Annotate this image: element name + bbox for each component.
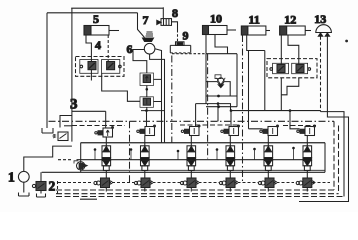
pilot valve PV3: [180, 178, 198, 188]
svg-text:12: 12: [284, 13, 296, 27]
dashed pilot vertical b2: [171, 56, 173, 143]
valve block 11: [249, 51, 265, 129]
accumulator 13: [315, 25, 332, 37]
svg-text:6: 6: [127, 42, 133, 56]
wire second top line: [47, 12, 138, 14]
tank symbol left: [42, 128, 53, 133]
svg-text:1: 1: [8, 170, 15, 185]
wire bottom return long: [56, 196, 344, 198]
wire top line into pump: [138, 13, 145, 38]
relief valve RV1: [140, 73, 154, 86]
cylinder 12: [280, 26, 311, 35]
dashed pilot vertical b: [207, 54, 209, 159]
wire group4 drain staircase: [102, 73, 140, 101]
pump 1: [18, 171, 29, 182]
wire accumulator leg A: [320, 36, 322, 111]
solenoid valve 12a: [270, 63, 289, 73]
check valve 10: [206, 75, 230, 96]
manifold bottom edge: [81, 169, 325, 171]
node gallery junctions: [94, 148, 97, 151]
cartridge CV2: [141, 146, 150, 175]
wire inlet top: [72, 110, 106, 112]
svg-text:5: 5: [93, 12, 99, 26]
cylinder 5: [84, 26, 119, 36]
inlet valve Va: [53, 132, 68, 141]
tank symbol pump1: [19, 193, 30, 197]
compensator Vc4: [221, 125, 240, 136]
pilot valve PV5: [258, 178, 276, 188]
wire PV6 stub: [306, 175, 308, 192]
wire top outer line: [71, 7, 163, 9]
node right fleck: [345, 40, 348, 43]
wire RV1 to RV2: [147, 79, 162, 101]
manifold gallery line: [77, 159, 312, 161]
wire block10 drain stub: [217, 104, 219, 122]
cartridge CV3: [187, 146, 196, 175]
wire pump bottom: [150, 54, 165, 143]
pilot valve PV4: [219, 178, 237, 188]
wire block11 to Vc5: [249, 129, 269, 147]
node: [146, 88, 149, 91]
tank symbol valve2: [37, 194, 46, 198]
wire supply header: [141, 110, 165, 112]
dashed second segments: [72, 124, 316, 127]
wire dashed port line: [107, 35, 109, 62]
wire pump right main supply: [155, 49, 162, 143]
relief valve 7 body: [143, 38, 154, 42]
solenoid valve 12b: [292, 63, 311, 73]
cylinder 11: [241, 26, 270, 35]
manifold gallery dashed part: [58, 159, 72, 161]
svg-text:4: 4: [95, 38, 101, 52]
wire PV5 stub: [267, 175, 269, 192]
wire below group 12: [281, 78, 299, 95]
wire bottom stub solid: [80, 198, 97, 200]
wire cyl10 ports: [205, 35, 207, 54]
node: [217, 95, 220, 98]
compensator Vc2: [137, 125, 156, 136]
wire PV1 stub: [105, 175, 107, 192]
dashed boundary horizontal upper: [49, 120, 335, 122]
inlet section box: [64, 125, 72, 127]
node collector junction a: [230, 109, 233, 112]
dashed pilot vertical a: [129, 121, 131, 182]
pilot chain dashes: [58, 182, 330, 184]
wire collector line: [231, 110, 321, 112]
wire Vc2: [145, 111, 147, 147]
svg-text:8: 8: [172, 6, 178, 20]
relief valve 7 spring: [146, 32, 154, 36]
pilot valve PV1: [94, 178, 112, 188]
pump 6: [144, 43, 155, 54]
valve group 12 dashed enclosure: [267, 59, 317, 78]
svg-text:2: 2: [49, 179, 56, 194]
manifold left edge: [80, 143, 82, 173]
valve 2: [32, 182, 46, 191]
wire tank branch: [60, 116, 72, 128]
pilot valve PV2: [134, 178, 152, 188]
dashed pilot vertical c: [242, 35, 244, 182]
tank bus line: [42, 171, 325, 173]
wire ch1 feed: [105, 111, 107, 128]
svg-text:11: 11: [249, 13, 260, 27]
dashed boundary right verticals: [334, 121, 339, 193]
valve 8 body: [161, 19, 172, 26]
wire cyl11 ports: [247, 35, 265, 51]
node: [217, 105, 220, 108]
wire PV2 stub: [144, 175, 146, 192]
compensator Vc3: [181, 125, 200, 136]
wire block12 to Vc6: [290, 111, 307, 147]
wire valve 9 down: [177, 30, 179, 42]
wire left riser: [71, 8, 73, 141]
relief valve RV2: [140, 97, 154, 108]
valve 8 arrow: [157, 20, 161, 24]
wire pump1 discharge: [24, 146, 72, 171]
wire RV2 down: [146, 107, 148, 110]
cartridge CV1: [102, 146, 111, 175]
wire below valve group 4: [90, 70, 92, 81]
wire block10 to Vc3: [191, 104, 195, 147]
node supply junction: [145, 109, 148, 112]
node collector junction b: [289, 109, 292, 112]
valve block 10: [196, 54, 237, 111]
compensator Vc5: [260, 125, 279, 136]
cylinder 10: [203, 26, 237, 35]
dashed boundary bottom lines: [56, 190, 339, 194]
svg-text:13: 13: [314, 12, 326, 26]
wire pump left staircase: [133, 50, 147, 74]
svg-text:10: 10: [210, 12, 222, 26]
wire dashed 9 to block10: [172, 53, 206, 55]
valve 9: [170, 42, 190, 53]
manifold right edge: [324, 143, 326, 173]
wire Vb down: [105, 137, 107, 146]
wire valve2: [40, 172, 42, 193]
wire into valve 8: [162, 7, 164, 18]
wire cyl12 ports: [288, 35, 299, 65]
valve group 4 dashed enclosure: [76, 57, 125, 77]
svg-text:7: 7: [143, 13, 149, 27]
cartridge CV4: [226, 146, 235, 175]
compensator Vb ch1: [95, 126, 114, 137]
wire cylinder5 to valve group 4: [86, 35, 91, 62]
solenoid valve 4b: [102, 60, 122, 74]
wire junction stubs: [95, 148, 294, 160]
wire valve 8 to 9: [172, 22, 178, 30]
compensator Vc6: [297, 125, 316, 136]
cartridge CV5: [264, 146, 273, 175]
wire pump1 tank: [23, 182, 25, 192]
manifold block top: [81, 142, 325, 144]
dashed left closure: [57, 181, 59, 197]
wire accumulator leg B: [299, 36, 349, 201]
svg-text:3: 3: [70, 97, 78, 113]
wire PV3 stub: [190, 175, 192, 192]
pilot valve PV6: [296, 178, 314, 188]
wire PV4 stub: [229, 175, 231, 192]
cartridge CV6: [303, 146, 312, 175]
svg-text:9: 9: [183, 29, 189, 43]
solenoid valve 4a: [80, 60, 98, 74]
unloading valve in manifold: [74, 161, 87, 170]
wire block10b to Vc4: [229, 111, 232, 147]
wire left return line: [46, 13, 48, 128]
node block10 drain: [217, 102, 220, 105]
